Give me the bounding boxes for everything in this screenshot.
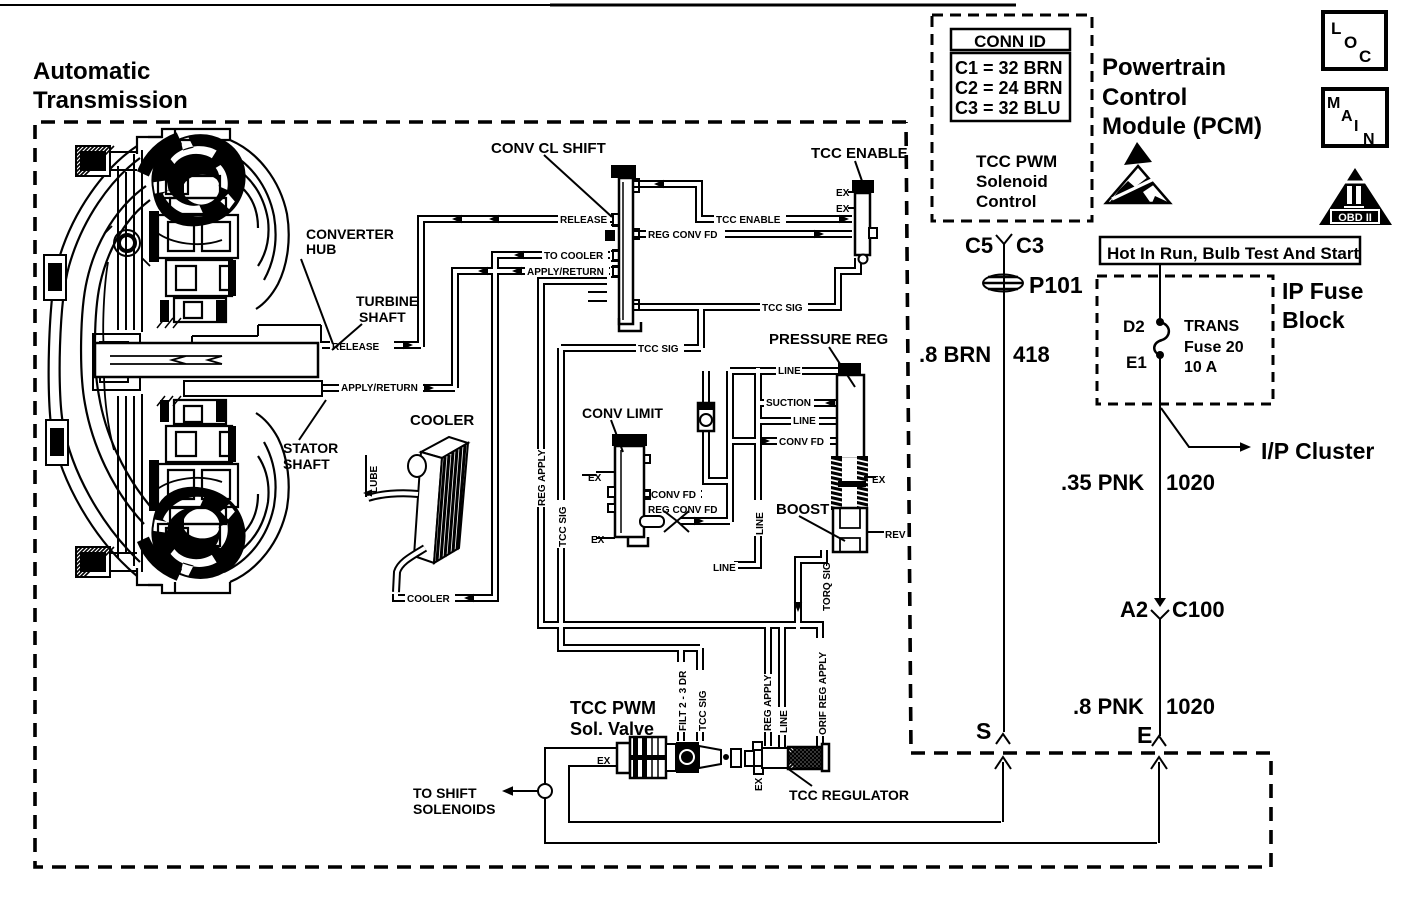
svg-text:I/P Cluster: I/P Cluster bbox=[1261, 438, 1374, 464]
svg-text:EX: EX bbox=[872, 475, 886, 486]
svg-text:Powertrain: Powertrain bbox=[1102, 54, 1226, 81]
svg-text:Hot In Run, Bulb Test And Star: Hot In Run, Bulb Test And Start bbox=[1107, 244, 1359, 263]
svg-text:.8 BRN: .8 BRN bbox=[919, 342, 991, 367]
svg-text:Sol. Valve: Sol. Valve bbox=[570, 719, 654, 739]
svg-text:TCC SIG: TCC SIG bbox=[638, 344, 679, 355]
svg-text:TCC ENABLE: TCC ENABLE bbox=[716, 215, 781, 226]
svg-text:IP Fuse: IP Fuse bbox=[1282, 278, 1363, 304]
svg-text:ORIF REG APPLY: ORIF REG APPLY bbox=[818, 652, 829, 735]
svg-text:1020: 1020 bbox=[1166, 694, 1215, 719]
svg-text:Fuse 20: Fuse 20 bbox=[1184, 339, 1244, 356]
svg-text:C5: C5 bbox=[965, 233, 993, 258]
svg-text:E1: E1 bbox=[1126, 353, 1147, 372]
svg-text:TURBINE: TURBINE bbox=[356, 293, 418, 309]
svg-text:A2: A2 bbox=[1120, 597, 1148, 622]
svg-text:C3: C3 bbox=[1016, 233, 1044, 258]
svg-text:CONV LIMIT: CONV LIMIT bbox=[582, 405, 663, 421]
svg-text:C: C bbox=[1359, 47, 1371, 66]
svg-text:L: L bbox=[1331, 19, 1341, 38]
svg-text:TO SHIFT: TO SHIFT bbox=[413, 785, 477, 801]
svg-text:APPLY/RETURN: APPLY/RETURN bbox=[527, 267, 604, 278]
svg-text:TCC SIG: TCC SIG bbox=[762, 303, 803, 314]
svg-text:LINE: LINE bbox=[713, 563, 736, 574]
svg-text:CONVERTER: CONVERTER bbox=[306, 226, 394, 242]
svg-text:S: S bbox=[976, 718, 991, 744]
svg-text:REG CONV FD: REG CONV FD bbox=[648, 230, 717, 241]
svg-text:TCC ENABLE: TCC ENABLE bbox=[811, 145, 908, 162]
svg-text:STATOR: STATOR bbox=[283, 440, 338, 456]
svg-text:C100: C100 bbox=[1172, 597, 1225, 622]
svg-text:REV: REV bbox=[885, 530, 906, 541]
svg-text:418: 418 bbox=[1013, 342, 1050, 367]
svg-text:N: N bbox=[1363, 131, 1375, 148]
svg-text:COOLER: COOLER bbox=[407, 594, 451, 605]
svg-text:EX: EX bbox=[754, 777, 765, 791]
svg-text:I: I bbox=[1354, 118, 1358, 135]
svg-text:COOLER: COOLER bbox=[410, 412, 474, 429]
svg-text:E: E bbox=[1137, 722, 1152, 748]
svg-text:APPLY/RETURN: APPLY/RETURN bbox=[341, 383, 418, 394]
svg-text:REG APPLY: REG APPLY bbox=[763, 674, 774, 731]
svg-text:EX: EX bbox=[597, 756, 611, 767]
svg-text:EX: EX bbox=[836, 204, 850, 215]
svg-text:TO COOLER: TO COOLER bbox=[544, 251, 604, 262]
svg-text:Automatic: Automatic bbox=[33, 58, 150, 85]
svg-text:LUBE: LUBE bbox=[369, 465, 380, 493]
svg-text:Module (PCM): Module (PCM) bbox=[1102, 113, 1262, 140]
svg-text:FILT 2 - 3 DR: FILT 2 - 3 DR bbox=[678, 670, 689, 731]
svg-text:Control: Control bbox=[1102, 84, 1187, 111]
svg-text:C3 = 32 BLU: C3 = 32 BLU bbox=[955, 98, 1061, 118]
svg-text:SHAFT: SHAFT bbox=[359, 309, 406, 325]
svg-text:BOOST: BOOST bbox=[776, 501, 829, 518]
svg-text:TORQ SIG: TORQ SIG bbox=[822, 562, 833, 611]
svg-text:CONV FD: CONV FD bbox=[651, 490, 696, 501]
svg-text:PRESSURE REG: PRESSURE REG bbox=[769, 331, 888, 348]
svg-text:CONV CL SHIFT: CONV CL SHIFT bbox=[491, 140, 606, 157]
svg-text:SHAFT: SHAFT bbox=[283, 456, 330, 472]
svg-text:CONV FD: CONV FD bbox=[779, 437, 824, 448]
svg-text:EX: EX bbox=[836, 188, 850, 199]
svg-text:TCC SIG: TCC SIG bbox=[558, 506, 569, 547]
svg-text:P101: P101 bbox=[1029, 272, 1083, 298]
svg-text:EX: EX bbox=[591, 535, 605, 546]
svg-text:Control: Control bbox=[976, 192, 1036, 211]
svg-text:Block: Block bbox=[1282, 307, 1345, 333]
svg-text:LINE: LINE bbox=[793, 416, 816, 427]
svg-text:10 A: 10 A bbox=[1184, 359, 1218, 376]
svg-text:LINE: LINE bbox=[779, 710, 790, 733]
svg-text:.35 PNK: .35 PNK bbox=[1061, 470, 1144, 495]
svg-text:RELEASE: RELEASE bbox=[332, 342, 380, 353]
svg-text:OBD II: OBD II bbox=[1338, 212, 1372, 224]
svg-text:TCC PWM: TCC PWM bbox=[976, 152, 1057, 171]
svg-text:1020: 1020 bbox=[1166, 470, 1215, 495]
svg-text:TRANS: TRANS bbox=[1184, 318, 1239, 335]
svg-text:C2 = 24 BRN: C2 = 24 BRN bbox=[955, 78, 1063, 98]
svg-text:REG APPLY: REG APPLY bbox=[537, 449, 548, 506]
svg-text:TCC PWM: TCC PWM bbox=[570, 698, 656, 718]
svg-text:M: M bbox=[1327, 95, 1340, 112]
svg-text:SUCTION: SUCTION bbox=[766, 398, 811, 409]
svg-text:RELEASE: RELEASE bbox=[560, 215, 608, 226]
svg-text:EX: EX bbox=[588, 473, 602, 484]
svg-text:Solenoid: Solenoid bbox=[976, 172, 1048, 191]
svg-text:Transmission: Transmission bbox=[33, 87, 188, 114]
svg-text:CONN ID: CONN ID bbox=[974, 32, 1046, 51]
svg-text:.8 PNK: .8 PNK bbox=[1073, 694, 1144, 719]
svg-text:A: A bbox=[1341, 108, 1353, 125]
svg-text:LINE: LINE bbox=[755, 512, 766, 535]
svg-text:O: O bbox=[1344, 33, 1357, 52]
svg-text:TCC REGULATOR: TCC REGULATOR bbox=[789, 787, 909, 803]
svg-text:LINE: LINE bbox=[778, 366, 801, 377]
svg-text:HUB: HUB bbox=[306, 241, 336, 257]
svg-text:SOLENOIDS: SOLENOIDS bbox=[413, 801, 495, 817]
svg-text:TCC SIG: TCC SIG bbox=[698, 690, 709, 731]
svg-text:C1 = 32 BRN: C1 = 32 BRN bbox=[955, 58, 1063, 78]
svg-text:REG CONV FD: REG CONV FD bbox=[648, 505, 717, 516]
svg-text:D2: D2 bbox=[1123, 317, 1145, 336]
